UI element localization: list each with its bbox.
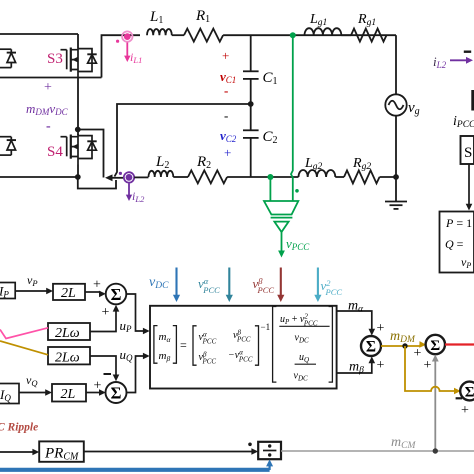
- PCC symbol trapezoid: [264, 201, 298, 215]
- wire R2 to grid: [227, 176, 298, 178]
- sign minus sum2 top: [104, 373, 112, 375]
- node iL2 (purple): [119, 172, 134, 183]
- wire pink input: [0, 328, 48, 339]
- wire gray mCM line: [281, 450, 474, 452]
- node iL1 (pink): [116, 31, 133, 42]
- wire sum1 output into matrix box: [126, 294, 149, 334]
- wire 2L to sum2: [86, 389, 106, 396]
- wire mDM olive to sum4: [381, 341, 426, 348]
- junction arrow into midpoint: [105, 174, 113, 181]
- wire Rg2 to ground node: [380, 176, 397, 178]
- wire olive mDM feedback down and right: [405, 346, 456, 391]
- wire up-and-over to L1 node: [102, 35, 141, 77]
- green PCC bus vertical: [291, 35, 293, 201]
- node PCC top (green dot): [290, 32, 296, 38]
- svg-text:2Lω: 2Lω: [55, 351, 80, 366]
- wire C-midpoint line: [115, 104, 251, 177]
- node mDM junction: [402, 343, 407, 348]
- sign minus sum5: [456, 397, 463, 399]
- node A (S4 drain junction): [75, 127, 81, 133]
- wire S4 source rail: [0, 165, 78, 178]
- svg-text:-: -: [46, 119, 51, 134]
- svg-text:Σ: Σ: [111, 384, 122, 403]
- wire S3 drain stub: [77, 34, 79, 48]
- svg-text:S4: S4: [47, 144, 63, 160]
- transistor S4: [61, 134, 97, 165]
- wire olive input: [0, 341, 48, 355]
- arrow vDC into box: [173, 268, 180, 303]
- wire gray mCM up into sum4: [432, 355, 439, 452]
- wire blue vDC feedback: [0, 459, 273, 470]
- wire node to L2: [134, 176, 148, 178]
- svg-text:+: +: [377, 321, 385, 336]
- svg-text:S3: S3: [47, 51, 63, 67]
- wire red output: [445, 343, 474, 345]
- box matrix computation: [150, 306, 337, 389]
- bar partial box right edge: [471, 90, 474, 111]
- arrowhead olive into sum5: [454, 388, 461, 395]
- wire down to vg: [395, 35, 397, 94]
- svg-text:-: -: [224, 108, 228, 123]
- wire node A around to output: [78, 130, 104, 178]
- arrow into PRcm box: [0, 449, 39, 456]
- box PRcm: [39, 441, 84, 461]
- fraction 2 bar: [295, 363, 316, 365]
- summer sum4: [426, 335, 445, 354]
- wire S3 source down to S4: [77, 78, 79, 130]
- divide symbol: [263, 444, 276, 456]
- arrow vPCCa into box: [226, 268, 233, 303]
- arrow IQ to 2L: [19, 389, 52, 396]
- wire Lg1-Rg1: [341, 34, 351, 36]
- arrow vPCC2 into box: [314, 268, 321, 303]
- label vC2: [220, 108, 237, 160]
- svg-text:=: =: [180, 338, 187, 352]
- wire sum2 output into matrix box: [127, 353, 150, 393]
- svg-text:+: +: [94, 379, 102, 394]
- node mCM junction: [433, 448, 438, 453]
- svg-text:C Ripple: C Ripple: [0, 422, 38, 434]
- box IP (cut at left): [0, 283, 15, 299]
- box 2L upper: [53, 284, 85, 300]
- svg-text:+: +: [222, 48, 229, 63]
- svg-text:Σ: Σ: [430, 338, 440, 354]
- box 2Lw upper: [48, 323, 90, 340]
- wire L1-R1: [172, 34, 184, 36]
- inductor L1: [147, 29, 172, 35]
- arrow S box to PQ box: [466, 164, 473, 211]
- dot above divider input: [248, 443, 252, 447]
- svg-text:+: +: [377, 358, 385, 373]
- svg-text:Q =: Q =: [445, 237, 464, 251]
- summer sum1: [106, 284, 127, 305]
- box 2Lw lower: [48, 347, 90, 364]
- current arrow iL1: [124, 43, 130, 63]
- capacitor C2: [243, 104, 259, 177]
- sign minus above arrow: [464, 51, 471, 53]
- box PQ calculation: [440, 212, 474, 273]
- summer sum3: [361, 336, 381, 356]
- node grid ground junction: [393, 174, 399, 180]
- svg-text:+: +: [44, 80, 52, 95]
- box IQ (cut at left): [0, 384, 19, 404]
- svg-text:2Lω: 2Lω: [55, 326, 80, 341]
- diode D1 (left leg body diode, cut off): [0, 49, 16, 67]
- svg-text:2L: 2L: [61, 387, 76, 402]
- resistor R2: [188, 170, 227, 183]
- wire R1 to grid rail: [223, 34, 396, 36]
- PCC symbol bar: [271, 217, 293, 219]
- inductor Lg2: [299, 170, 336, 177]
- wire L2-R2: [173, 176, 188, 178]
- matrix 2x2 brackets: [193, 326, 259, 365]
- green PCC left stub: [269, 177, 271, 201]
- resistor R1: [184, 29, 223, 42]
- box divider: [258, 442, 281, 459]
- wire uP from 2Lw1 into sum1: [90, 305, 119, 332]
- svg-text:+: +: [414, 346, 422, 361]
- node C1-C2 junction: [248, 101, 254, 107]
- label mDM vDC with polarity: [26, 80, 69, 134]
- wire mid rail (S3 source): [0, 77, 102, 79]
- inductor L2: [149, 171, 174, 177]
- transistor S3: [61, 47, 97, 78]
- svg-text:2L: 2L: [61, 286, 76, 301]
- svg-text:+: +: [424, 358, 432, 373]
- resistor Rg2: [344, 170, 379, 183]
- matrix m vector brackets: [154, 326, 177, 364]
- arrow vPCCb into box: [277, 268, 284, 303]
- inductor Lg1: [305, 28, 342, 35]
- wire m_beta output: [337, 356, 376, 373]
- wire top DC rail left: [0, 33, 78, 35]
- svg-text:+: +: [461, 403, 469, 418]
- svg-text:S: S: [464, 145, 472, 161]
- current arrow iL2 right: [450, 57, 473, 64]
- svg-text:Σ: Σ: [366, 339, 376, 356]
- wire S4 source loop under: [78, 177, 116, 189]
- node PCC bottom (green dot): [267, 174, 273, 180]
- green arrow vPCC down: [278, 232, 285, 258]
- svg-text:Σ: Σ: [465, 385, 474, 401]
- summer sum2: [106, 382, 127, 403]
- fraction 1 bar: [279, 325, 329, 327]
- wire vg to ground: [395, 116, 397, 201]
- source vg: [385, 94, 406, 115]
- wire m_alpha output: [337, 311, 376, 336]
- ground: [385, 202, 407, 209]
- svg-text:+: +: [93, 278, 101, 293]
- resistor Rg1: [351, 29, 386, 42]
- wire 2L to sum1: [85, 291, 106, 298]
- svg-text:Σ: Σ: [111, 285, 122, 304]
- green dot marker: [295, 189, 299, 193]
- diode D2 (left leg body diode, cut off): [0, 137, 16, 155]
- svg-text:P = 1: P = 1: [445, 216, 472, 230]
- box sampler S: [461, 136, 474, 164]
- svg-text:+: +: [102, 305, 110, 320]
- svg-text:-: -: [224, 83, 228, 98]
- capacitor C1: [243, 35, 259, 104]
- box 2L lower: [52, 384, 86, 402]
- arrow IP to 2L: [15, 288, 53, 295]
- svg-text:+: +: [224, 145, 231, 160]
- current arrow iL2: [126, 183, 132, 201]
- node S4 source: [75, 174, 81, 180]
- svg-text:−1: −1: [261, 322, 271, 332]
- summer sum5: [460, 382, 474, 401]
- label vC1: [220, 48, 236, 98]
- wire PRcm to divider: [84, 448, 258, 455]
- PCC symbol triangle: [274, 222, 288, 232]
- wire uQ from 2Lw2 into sum2: [90, 356, 119, 381]
- wire Lg2-Rg2: [335, 176, 344, 178]
- right vector brackets: [273, 307, 333, 383]
